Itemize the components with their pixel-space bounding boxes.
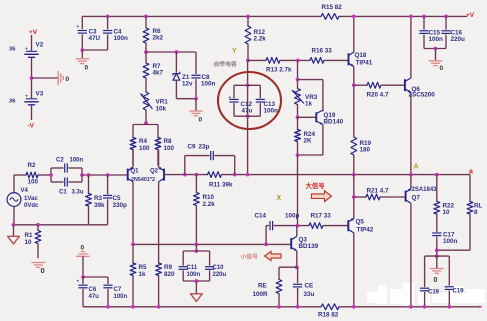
svg-text:C11: C11 — [187, 265, 198, 271]
svg-text:8: 8 — [474, 209, 478, 216]
svg-text:BD140: BD140 — [324, 119, 344, 126]
svg-text:47u: 47u — [89, 294, 100, 300]
svg-text:10: 10 — [443, 209, 451, 216]
svg-text:0Vdc: 0Vdc — [24, 203, 39, 209]
svg-text:+: + — [229, 95, 232, 100]
svg-text:100: 100 — [139, 145, 150, 152]
svg-text:2SA1843: 2SA1843 — [412, 187, 438, 193]
svg-text:0: 0 — [199, 117, 203, 124]
svg-text:VR1: VR1 — [156, 99, 169, 106]
svg-text:+: + — [25, 46, 28, 51]
svg-text:R18 82: R18 82 — [318, 312, 339, 319]
svg-text:Q1: Q1 — [131, 168, 140, 174]
svg-text:R21 4.7: R21 4.7 — [367, 188, 390, 195]
svg-text:2N5401*2: 2N5401*2 — [131, 177, 155, 183]
svg-text:10: 10 — [25, 239, 33, 246]
svg-text:TIP41: TIP41 — [356, 60, 373, 67]
svg-text:220u: 220u — [213, 272, 227, 278]
svg-text:R2: R2 — [28, 162, 37, 169]
svg-text:47U: 47U — [89, 35, 101, 42]
svg-text:39k: 39k — [94, 202, 105, 209]
svg-text:2.2k: 2.2k — [203, 201, 216, 208]
svg-text:100n: 100n — [201, 81, 216, 88]
svg-text:BD139: BD139 — [299, 243, 319, 250]
svg-text:1Vac: 1Vac — [24, 196, 38, 202]
svg-text:100: 100 — [28, 179, 39, 186]
svg-text:33u: 33u — [304, 291, 315, 298]
svg-text:23p: 23p — [199, 144, 210, 151]
svg-text:Y: Y — [232, 48, 237, 55]
svg-text:1k: 1k — [305, 101, 313, 108]
svg-text:A: A — [414, 164, 419, 171]
svg-text:100n: 100n — [429, 36, 444, 43]
svg-text:CE: CE — [305, 283, 314, 290]
svg-text:Q5: Q5 — [356, 219, 365, 226]
svg-text:+V: +V — [466, 12, 475, 19]
svg-text:R20 4.7: R20 4.7 — [367, 92, 390, 99]
svg-text:TIP42: TIP42 — [357, 227, 374, 234]
svg-text:+: + — [25, 93, 28, 98]
svg-text:100n: 100n — [114, 35, 129, 42]
svg-text:C10: C10 — [213, 265, 225, 271]
svg-text:+V: +V — [29, 29, 38, 36]
svg-text:0: 0 — [41, 266, 45, 275]
svg-text:Q7: Q7 — [412, 195, 421, 202]
svg-text:180: 180 — [360, 147, 371, 154]
svg-text:2K: 2K — [304, 138, 313, 145]
svg-text:100n: 100n — [264, 108, 279, 115]
svg-text:C6: C6 — [89, 287, 97, 293]
svg-text:RE: RE — [258, 283, 267, 290]
svg-text:100n: 100n — [114, 294, 128, 300]
svg-text:10k: 10k — [156, 106, 167, 113]
svg-text:X: X — [277, 195, 282, 202]
svg-text:C2: C2 — [56, 158, 64, 164]
svg-text:36: 36 — [9, 47, 16, 53]
svg-text:100p: 100p — [285, 213, 300, 220]
svg-text:C7: C7 — [114, 287, 122, 293]
svg-text:Q18: Q18 — [355, 52, 367, 59]
svg-text:a: a — [469, 169, 473, 176]
svg-text:R16 33: R16 33 — [312, 48, 333, 55]
svg-text:0: 0 — [440, 65, 444, 72]
svg-text:V2: V2 — [36, 42, 44, 49]
svg-text:220u: 220u — [451, 36, 466, 43]
svg-text:C19: C19 — [453, 289, 465, 295]
svg-text:大信号: 大信号 — [306, 181, 326, 190]
svg-text:36: 36 — [9, 99, 16, 105]
svg-text:+: + — [77, 279, 80, 284]
svg-text:100R: 100R — [253, 291, 269, 298]
svg-text:V3: V3 — [36, 91, 44, 98]
svg-text:100: 100 — [164, 145, 175, 152]
svg-text:R13 2.7k: R13 2.7k — [266, 67, 292, 74]
svg-text:2.2k: 2.2k — [254, 36, 267, 43]
svg-text:100n: 100n — [187, 272, 201, 278]
svg-text:C14: C14 — [255, 213, 267, 220]
svg-text:4k7: 4k7 — [153, 70, 164, 77]
svg-text:12v: 12v — [182, 81, 193, 88]
svg-text:0: 0 — [85, 65, 89, 72]
svg-text:0: 0 — [66, 76, 70, 83]
svg-text:0: 0 — [434, 277, 438, 284]
svg-text:小信号: 小信号 — [240, 253, 259, 261]
svg-text:R15 82: R15 82 — [322, 4, 343, 11]
svg-text:100n: 100n — [70, 158, 84, 164]
svg-text:100n: 100n — [443, 238, 458, 245]
svg-text:R17 33: R17 33 — [311, 213, 332, 220]
svg-text:R11 39k: R11 39k — [209, 182, 233, 189]
svg-text:V4: V4 — [21, 188, 29, 194]
svg-text:47u: 47u — [242, 108, 253, 115]
svg-text:自举电容: 自举电容 — [214, 60, 237, 68]
svg-text:0: 0 — [81, 245, 85, 252]
svg-text:C19: C19 — [428, 290, 440, 296]
svg-text:3.3u: 3.3u — [72, 190, 84, 196]
svg-text:2k2: 2k2 — [153, 35, 164, 42]
svg-text:C9: C9 — [188, 144, 197, 151]
svg-text:330p: 330p — [113, 202, 128, 209]
svg-text:Q2: Q2 — [150, 168, 159, 174]
svg-text:+: + — [77, 24, 80, 29]
svg-text:820: 820 — [164, 271, 175, 278]
svg-text:-V: -V — [28, 123, 35, 130]
svg-text:C1: C1 — [59, 190, 67, 196]
svg-text:1k: 1k — [139, 271, 147, 278]
svg-text:2SC5200: 2SC5200 — [409, 92, 436, 99]
